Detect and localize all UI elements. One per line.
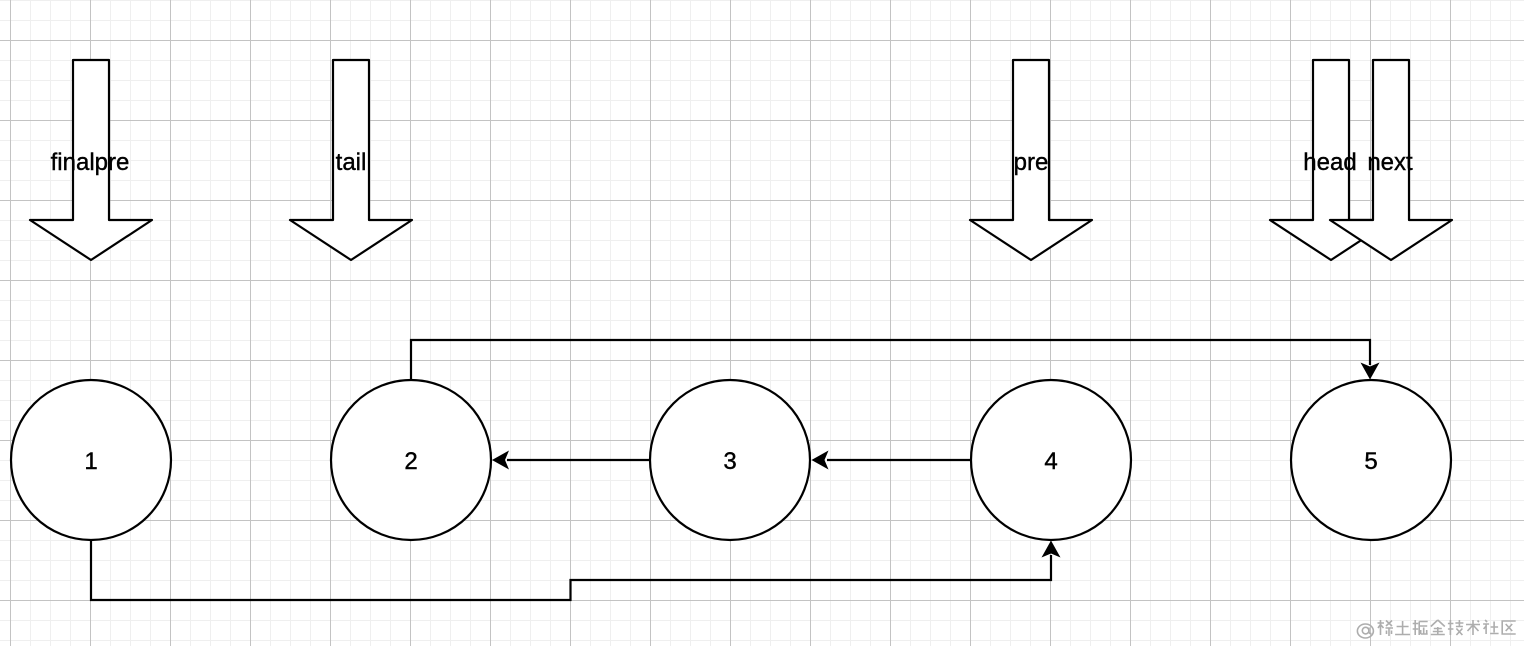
svg-text:head: head — [1303, 149, 1356, 176]
svg-text:pre: pre — [1014, 149, 1049, 176]
svg-text:2: 2 — [404, 448, 417, 475]
svg-text:finalpre: finalpre — [51, 149, 130, 176]
svg-text:4: 4 — [1044, 448, 1057, 475]
svg-text:3: 3 — [723, 448, 736, 475]
svg-text:1: 1 — [84, 448, 97, 475]
svg-text:next: next — [1367, 149, 1413, 176]
svg-text:5: 5 — [1364, 448, 1377, 475]
svg-text:tail: tail — [336, 149, 367, 176]
